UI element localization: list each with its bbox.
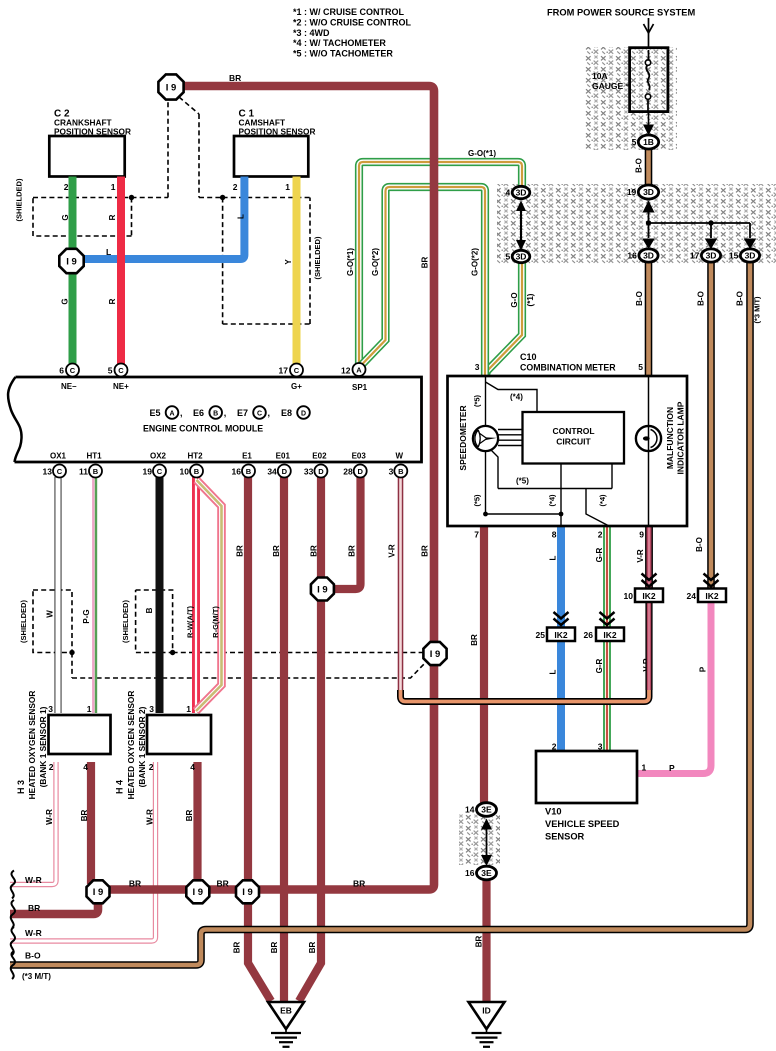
svg-text:W-R: W-R [45, 809, 54, 825]
svg-text:13: 13 [43, 467, 53, 477]
svg-text:E01: E01 [276, 452, 291, 461]
wire G-R from meter pin 2 to V10 pin 3 [603, 527, 611, 752]
svg-text:I 9: I 9 [317, 584, 328, 595]
wire B-O from 1B to 19(3D) [645, 147, 653, 186]
svg-text:SP1: SP1 [352, 383, 368, 392]
connector 25 IK2 with arrows [554, 612, 569, 619]
svg-text:28: 28 [343, 467, 353, 477]
svg-text:10: 10 [624, 591, 634, 601]
ECM pin 10(B) HT2 [190, 465, 203, 478]
svg-text:BR: BR [229, 73, 241, 83]
svg-text:6: 6 [59, 366, 64, 376]
arrow up into 14(3E) [481, 819, 492, 830]
svg-text:(SHIELDED): (SHIELDED) [19, 600, 28, 643]
svg-text:NE+: NE+ [113, 382, 129, 391]
wire W from OX1 to H3 pin 3 [55, 477, 62, 713]
svg-text:2: 2 [598, 530, 603, 540]
svg-text:BR: BR [272, 545, 281, 557]
svg-text:(SHIELDED): (SHIELDED) [313, 236, 322, 279]
svg-text:3: 3 [48, 704, 53, 714]
wire G-O(*2) inner loop SP1 to combination meter pin 3 [361, 187, 486, 375]
svg-text:10: 10 [180, 467, 190, 477]
svg-text:BR: BR [421, 545, 430, 557]
ECM pin 6(C) NE- [66, 364, 79, 377]
svg-text:C10: C10 [520, 352, 537, 362]
svg-text:3E: 3E [481, 805, 492, 815]
svg-text:HT1: HT1 [86, 452, 102, 461]
svg-text:POSITION SENSOR: POSITION SENSOR [239, 127, 316, 137]
arrow up into 19(3D) [643, 201, 655, 213]
engine control module box [15, 377, 422, 462]
svg-text:G-O(*2): G-O(*2) [371, 248, 380, 276]
svg-text:(*5): (*5) [473, 394, 482, 407]
svg-text:17: 17 [690, 251, 700, 261]
svg-text:G-R: G-R [595, 547, 604, 562]
svg-text:MALFUNCTION: MALFUNCTION [665, 407, 675, 469]
svg-text:L: L [548, 669, 557, 674]
svg-text:B-O: B-O [634, 158, 643, 173]
svg-text:2: 2 [49, 762, 54, 772]
svg-text:B-O: B-O [696, 291, 705, 306]
svg-text:4: 4 [83, 762, 88, 772]
wire BR from E1 through I9 to ground EB [248, 477, 271, 1001]
svg-text:L: L [548, 555, 557, 560]
svg-text:G-R: G-R [595, 658, 604, 673]
svg-text:*3 : 4WD: *3 : 4WD [293, 28, 330, 38]
svg-text:D: D [318, 467, 324, 476]
junction dot meter 1 [483, 512, 488, 517]
svg-text:19: 19 [143, 467, 153, 477]
wire G-O(*1) from 5(3D) to combination meter pin 3 [486, 261, 522, 375]
control circuit box [523, 412, 625, 464]
svg-text:16: 16 [465, 868, 475, 878]
svg-text:16: 16 [627, 251, 637, 261]
component V10 vehicle speed sensor [536, 751, 637, 803]
junction connector I9 ground 1 [87, 880, 110, 903]
svg-text:C: C [70, 366, 76, 375]
connector 17(3D) [701, 249, 720, 262]
svg-text:BR: BR [421, 257, 430, 269]
junction dot shield OX2 [170, 650, 175, 655]
arrow pair between 4(3D) and 5(3D) [520, 205, 522, 245]
combination meter box C10 [448, 376, 688, 526]
wire BR from E02 to ground EB [299, 477, 321, 1001]
svg-text:C: C [294, 366, 300, 375]
svg-text:C: C [57, 467, 63, 476]
svg-text:33: 33 [304, 467, 314, 477]
connector 19(3D) [638, 185, 658, 199]
svg-text:9: 9 [639, 530, 644, 540]
wire P-G from HT1 to H3 pin 1 [92, 477, 94, 713]
wire G-O(*1) outer loop SP1 to 4(3D) [359, 162, 522, 364]
svg-text:1B: 1B [643, 137, 654, 147]
meter internal wiring [485, 377, 487, 426]
svg-text:INDICATOR LAMP: INDICATOR LAMP [675, 401, 685, 474]
ECM pin 19(C) OX2 [153, 465, 166, 478]
svg-text:E7: E7 [237, 408, 248, 418]
connector 16(3E) [477, 866, 497, 880]
svg-text:BR: BR [308, 942, 317, 954]
wire P from 24 IK2 to V10 pin 1 [637, 603, 711, 774]
svg-text:BR: BR [217, 879, 229, 889]
svg-text:5: 5 [108, 366, 113, 376]
svg-text:,: , [268, 408, 271, 418]
svg-text:OX1: OX1 [50, 452, 67, 461]
svg-text:A: A [169, 411, 174, 418]
svg-text:11: 11 [79, 467, 88, 477]
svg-text:(BANK 1 SENSOR 2): (BANK 1 SENSOR 2) [137, 706, 147, 787]
wire W-R from H4 pin 2 to left edge [10, 762, 156, 941]
svg-text:3D: 3D [745, 251, 756, 261]
svg-text:E5: E5 [150, 408, 161, 418]
svg-text:BR: BR [232, 942, 241, 954]
junction dot meter 2 [559, 512, 564, 517]
junction connector I9 shield drain [423, 642, 446, 665]
ECM pin 13(C) OX1 [53, 465, 66, 478]
svg-text:16: 16 [232, 467, 242, 477]
svg-text:HT2: HT2 [187, 452, 203, 461]
svg-text:H 3: H 3 [16, 780, 26, 794]
svg-text:I 9: I 9 [166, 82, 177, 93]
svg-text:(SHIELDED): (SHIELDED) [121, 600, 130, 643]
svg-text:BR: BR [348, 545, 357, 557]
svg-text:BR: BR [28, 903, 40, 913]
arrow down into 16(3E) [481, 855, 492, 866]
wire R-W(A/T) from HT2 to H4 pin 1 [192, 477, 200, 713]
svg-text:34: 34 [267, 467, 277, 477]
svg-text:26: 26 [584, 630, 594, 640]
arrow into connector 1B [648, 112, 650, 125]
svg-text:B-O: B-O [695, 537, 704, 552]
svg-text:B: B [246, 467, 252, 476]
svg-text:C: C [257, 411, 262, 418]
connector 14(3E) [477, 803, 497, 817]
svg-text:D: D [282, 467, 288, 476]
junction connector I9 ground 3 [236, 880, 259, 903]
svg-text:*1 : W/ CRUISE CONTROL: *1 : W/ CRUISE CONTROL [293, 7, 405, 17]
svg-text:3D: 3D [643, 187, 654, 197]
shield box of OX1 wire [33, 590, 72, 653]
svg-text:W-R: W-R [145, 809, 154, 825]
svg-text:GAUGE: GAUGE [592, 81, 624, 91]
svg-text:VEHICLE SPEED: VEHICLE SPEED [545, 819, 620, 829]
svg-text:(*5): (*5) [473, 494, 482, 507]
svg-text:ID: ID [482, 1006, 491, 1016]
wire BR from E03 joining E02 at I9 [334, 477, 361, 589]
svg-text:G-O: G-O [510, 292, 519, 307]
svg-text:,: , [224, 408, 227, 418]
shaded region around fuse [584, 47, 677, 150]
svg-text:4: 4 [190, 762, 195, 772]
svg-text:P-G: P-G [82, 609, 91, 623]
svg-text:BR: BR [185, 810, 194, 822]
svg-text:W-R: W-R [25, 875, 42, 885]
connector 5(3D) [512, 250, 530, 262]
svg-text:L: L [106, 247, 111, 257]
svg-text:E8: E8 [281, 408, 292, 418]
wire V-R from meter pin 9 to 10 IK2 [645, 527, 653, 588]
feed line from power source [648, 18, 650, 48]
svg-text:W: W [396, 452, 404, 461]
shield box of crankshaft position sensor wires [33, 198, 132, 237]
shield drain dashed line to I9 (left) [132, 100, 169, 198]
svg-text:3: 3 [149, 704, 154, 714]
svg-text:1: 1 [186, 704, 191, 714]
wire R-G(M/T) loop from HT2 to H4 pin 1 [196, 480, 222, 711]
svg-text:*5 : W/O TACHOMETER: *5 : W/O TACHOMETER [293, 49, 393, 59]
arrow down into 16(3D) [647, 237, 650, 240]
malfunction indicator lamp symbol [636, 426, 661, 451]
svg-text:IK2: IK2 [642, 591, 656, 601]
svg-text:3: 3 [598, 742, 603, 752]
component H4 heated oxygen sensor bank1 sensor2 [147, 715, 211, 754]
svg-text:C: C [118, 366, 124, 375]
svg-text:G-O(*2): G-O(*2) [470, 248, 479, 276]
svg-text:B: B [213, 411, 218, 418]
ECM pin 5(C) NE+ [115, 364, 128, 377]
svg-text:R-G(M/T): R-G(M/T) [211, 606, 220, 638]
svg-text:15: 15 [729, 251, 739, 261]
svg-text:SENSOR: SENSOR [545, 832, 585, 842]
wire BR from meter pin 7 to 14(3E) and ground ID [484, 527, 487, 1001]
svg-text:3E: 3E [481, 868, 492, 878]
svg-text:3: 3 [389, 467, 394, 477]
svg-text:24: 24 [687, 591, 697, 601]
connector 16(3D) [639, 249, 658, 262]
svg-text:G-O(*1): G-O(*1) [346, 248, 355, 276]
wire G from C2 pin 2 to NE- [69, 177, 77, 365]
junction dot shield C1 [220, 195, 225, 200]
svg-text:10A: 10A [592, 71, 608, 81]
connector 24 IK2 with arrows [704, 574, 719, 581]
svg-text:H 4: H 4 [115, 780, 125, 794]
svg-text:IK2: IK2 [603, 630, 617, 640]
svg-text:R: R [108, 214, 117, 220]
ground EB [268, 1002, 304, 1029]
ECM pin 3(B) W [394, 465, 407, 478]
ground ID [469, 1002, 505, 1029]
svg-text:CIRCUIT: CIRCUIT [556, 437, 591, 447]
svg-text:G+: G+ [291, 382, 302, 391]
wire BR main: from I9 top across and down to ground bus [98, 86, 434, 890]
svg-text:5: 5 [505, 252, 510, 262]
junction connector I9 mid (E02/E03) [311, 578, 334, 601]
component C2 crankshaft position sensor [49, 136, 124, 177]
svg-text:(*3 M/T): (*3 M/T) [753, 296, 762, 324]
connector 26 IK2 with arrows [600, 612, 615, 619]
junction dot 2 [708, 220, 713, 225]
svg-text:W-R: W-R [25, 928, 42, 938]
svg-text:2: 2 [552, 742, 557, 752]
svg-text:FROM POWER SOURCE SYSTEM: FROM POWER SOURCE SYSTEM [547, 8, 695, 18]
svg-text:*2 : W/O CRUISE CONTROL: *2 : W/O CRUISE CONTROL [293, 17, 412, 27]
svg-text:(*5): (*5) [516, 477, 529, 486]
svg-text:17: 17 [279, 366, 289, 376]
svg-text:HEATED OXYGEN SENSOR: HEATED OXYGEN SENSOR [126, 691, 136, 800]
shield drain dashed bus to I9 mid [72, 653, 425, 679]
fuse F 10A GAUGE [630, 48, 668, 112]
ECM pin 11(B) HT1 [89, 465, 102, 478]
svg-text:E02: E02 [312, 452, 327, 461]
svg-text:(*4): (*4) [548, 494, 557, 507]
speedometer gauge symbol [473, 426, 498, 451]
svg-text:,: , [180, 408, 183, 418]
svg-text:BR: BR [474, 936, 483, 948]
svg-text:BR: BR [80, 810, 89, 822]
svg-text:3D: 3D [643, 251, 654, 261]
svg-text:BR: BR [309, 545, 318, 557]
wire B from OX2 to H4 pin 3 [156, 477, 164, 713]
svg-text:B: B [145, 607, 154, 613]
svg-text:V-R: V-R [636, 549, 645, 563]
svg-text:1: 1 [642, 763, 647, 773]
svg-text:D: D [301, 411, 306, 418]
junction dot shield OX1 [69, 650, 74, 655]
ECM pin 12(A) SP1 [353, 363, 366, 376]
connector 4(3D) [512, 186, 530, 198]
svg-text:E1: E1 [242, 452, 252, 461]
svg-text:IK2: IK2 [705, 591, 719, 601]
wire R from C2 pin 1 to NE+ [117, 177, 125, 365]
svg-text:7: 7 [474, 530, 479, 540]
svg-text:SPEEDOMETER: SPEEDOMETER [458, 405, 468, 470]
svg-text:3D: 3D [706, 251, 717, 261]
svg-text:(*4): (*4) [510, 393, 523, 402]
svg-text:W: W [45, 610, 54, 618]
svg-text:12: 12 [341, 366, 351, 376]
svg-text:E6: E6 [193, 408, 204, 418]
svg-text:B-O: B-O [25, 951, 41, 961]
ECM pin 28(D) E03 [354, 465, 367, 478]
svg-text:2: 2 [149, 762, 154, 772]
svg-text:P: P [698, 666, 707, 672]
svg-text:B-O: B-O [635, 291, 644, 306]
shield drain dashed line to I9 (right) [179, 97, 223, 198]
svg-text:3D: 3D [516, 188, 527, 198]
junction dot shield C2 [129, 195, 134, 200]
ECM pin 33(D) E02 [314, 465, 327, 478]
wire V-R from ECM W to 10 IK2 [398, 477, 404, 692]
svg-text:V-R: V-R [387, 544, 396, 558]
svg-text:B-O: B-O [735, 291, 744, 306]
svg-text:IK2: IK2 [554, 630, 568, 640]
svg-text:(*3 M/T): (*3 M/T) [22, 972, 51, 981]
wire B-O from 16(3D) to combination meter pin 5 [645, 261, 653, 375]
wire BR from I9 bus to left edge [10, 888, 98, 914]
wire W-R from H3 pin 2 to left edge [10, 762, 56, 885]
svg-text:14: 14 [465, 805, 475, 815]
svg-text:EB: EB [280, 1006, 292, 1016]
wire L from C1 pin 2 to junction I9 [80, 177, 244, 260]
shaded region connector 3D band [497, 184, 776, 264]
wire BR from H3 pin 4 to I9 [87, 762, 95, 884]
svg-text:4: 4 [505, 188, 510, 198]
svg-text:G: G [61, 214, 70, 220]
svg-text:I 9: I 9 [242, 887, 253, 898]
svg-text:*4 : W/ TACHOMETER: *4 : W/ TACHOMETER [293, 38, 386, 48]
svg-text:3: 3 [475, 362, 480, 372]
svg-text:I 9: I 9 [430, 649, 441, 660]
svg-text:25: 25 [536, 630, 546, 640]
svg-text:P: P [669, 763, 675, 773]
wire B-O (*3 M/T) from 15(3D) down right side and across bottom [10, 261, 750, 965]
svg-text:I 9: I 9 [66, 256, 77, 267]
svg-text:HEATED OXYGEN SENSOR: HEATED OXYGEN SENSOR [27, 691, 37, 800]
shield box of OX2 wire [136, 590, 173, 653]
svg-text:COMBINATION METER: COMBINATION METER [520, 363, 616, 373]
svg-text:5: 5 [632, 137, 637, 147]
svg-text:B: B [194, 467, 200, 476]
wire Y from C1 pin 1 to G+ [293, 177, 301, 365]
svg-text:B: B [398, 467, 404, 476]
svg-text:OX2: OX2 [150, 452, 167, 461]
connector 10 IK2 with arrows [642, 574, 657, 581]
svg-text:2: 2 [233, 182, 238, 192]
svg-text:3D: 3D [516, 252, 527, 262]
svg-text:1: 1 [87, 704, 92, 714]
svg-text:D: D [357, 467, 363, 476]
wire L from meter pin 8 to V10 pin 2 [557, 527, 565, 752]
svg-text:R-W(A/T): R-W(A/T) [186, 605, 195, 638]
svg-text:B: B [93, 467, 99, 476]
connector 15(3D) [740, 249, 759, 262]
component C1 camshaft position sensor [234, 136, 308, 177]
svg-text:R: R [108, 298, 117, 304]
junction connector I9 ground 2 [186, 880, 209, 903]
junction line under 19(3D) [649, 212, 751, 238]
junction connector I9 left (NE- join) [59, 249, 83, 273]
svg-text:A: A [356, 365, 362, 374]
wire BR from E01 to ground EB [280, 477, 288, 1001]
svg-text:Y: Y [284, 259, 293, 265]
svg-text:BR: BR [235, 545, 244, 557]
svg-text:G: G [60, 298, 69, 304]
ECM pin 34(D) E01 [278, 465, 291, 478]
arrow down into 17(3D) [710, 237, 713, 240]
svg-text:E03: E03 [352, 452, 367, 461]
svg-text:V10: V10 [545, 807, 562, 817]
svg-text:1: 1 [111, 182, 116, 192]
junction connector I9 top [158, 74, 183, 99]
svg-text:I 9: I 9 [193, 887, 204, 898]
svg-text:CONTROL: CONTROL [552, 426, 594, 436]
svg-text:1: 1 [285, 182, 290, 192]
shaded region connector 3E [459, 814, 500, 865]
arrow down into 15(3D) [749, 237, 752, 240]
svg-text:NE–: NE– [61, 382, 77, 391]
svg-text:(*4): (*4) [598, 494, 607, 507]
junction dot 1 [646, 220, 651, 225]
svg-text:L: L [236, 214, 245, 219]
connector 5(1B) [638, 135, 658, 149]
shield box of camshaft position sensor wires [223, 198, 310, 325]
svg-text:2: 2 [64, 182, 69, 192]
page edge marks [11, 871, 15, 899]
svg-text:BR: BR [470, 634, 479, 646]
svg-text:BR: BR [129, 879, 141, 889]
svg-text:(BANK 1 SENSOR 1): (BANK 1 SENSOR 1) [38, 706, 48, 787]
svg-text:POSITION SENSOR: POSITION SENSOR [54, 127, 131, 137]
wire BR from H4 pin 4 to I9 [193, 762, 201, 884]
svg-text:(*1): (*1) [526, 293, 535, 306]
svg-text:ENGINE CONTROL MODULE: ENGINE CONTROL MODULE [143, 424, 263, 434]
svg-text:G-O(*1): G-O(*1) [468, 149, 496, 158]
svg-text:BR: BR [270, 942, 279, 954]
wire B-O from 17(3D) to connector 24 IK2 [707, 261, 715, 588]
ECM pin 17(C) G+ [290, 364, 303, 377]
svg-text:8: 8 [552, 530, 557, 540]
component H3 heated oxygen sensor bank1 sensor1 [49, 715, 111, 754]
